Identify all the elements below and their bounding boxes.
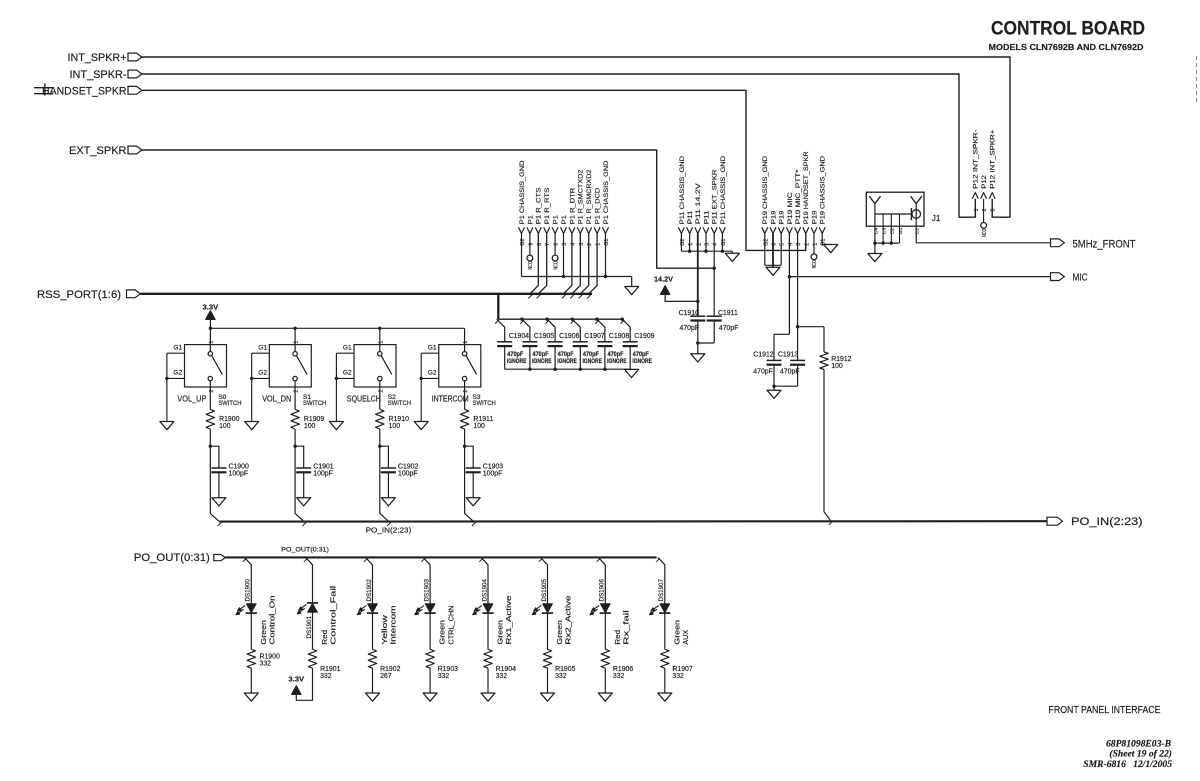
- svg-text:14.2V: 14.2V: [654, 275, 673, 284]
- wire R1905 to ground: [547, 668, 549, 693]
- port PO_IN(2:23): [1047, 516, 1143, 528]
- no-connect NCO on P12 pin 2: [981, 223, 988, 238]
- capacitor C1910 470pF: [679, 310, 706, 343]
- resistor R1905 332: [543, 649, 575, 680]
- resistor R1904 332: [484, 649, 516, 680]
- svg-text:IGNORE: IGNORE: [557, 359, 577, 365]
- ground C1910/C1911: [691, 354, 705, 362]
- connector P12 pin 3: [989, 130, 997, 212]
- svg-text:332: 332: [672, 673, 684, 680]
- svg-text:IGNORE: IGNORE: [507, 359, 527, 365]
- ground P1 chassis: [625, 287, 639, 295]
- svg-text:IGNORE: IGNORE: [607, 359, 627, 365]
- svg-text:IGNORE: IGNORE: [632, 359, 652, 365]
- wire DS1901 to 3.3V: [296, 668, 312, 700]
- svg-text:100: 100: [304, 423, 316, 430]
- docnumber 68P81098E03-B: [1106, 739, 1172, 750]
- net label PO_OUT(0:31): [281, 547, 329, 554]
- wire switch S3 left pins to ground: [420, 353, 439, 421]
- capacitor C1904 470pF IGNORE: [497, 319, 529, 369]
- resistor R1909 100: [291, 387, 324, 430]
- port INT_SPKR-: [70, 69, 142, 81]
- svg-text:P11: P11: [703, 210, 710, 224]
- svg-text:1: 1: [209, 341, 215, 344]
- resistor R1902 267: [368, 649, 400, 680]
- svg-text:G1: G1: [428, 344, 437, 351]
- svg-text:MODELS CLN7692B AND CLN7692D: MODELS CLN7692B AND CLN7692D: [989, 42, 1144, 52]
- svg-text:R1912: R1912: [831, 356, 851, 363]
- svg-text:100pF: 100pF: [398, 471, 418, 478]
- svg-text:J1: J1: [932, 214, 941, 223]
- svg-text:NCO: NCO: [812, 260, 818, 269]
- svg-text:P11 14.2V: P11 14.2V: [695, 183, 702, 225]
- wire P19 ground bracket: [765, 264, 781, 266]
- svg-text:DS1900: DS1900: [245, 579, 252, 602]
- wire HANDSET_SPKR to P19 pin 2: [142, 90, 806, 250]
- ground C1900: [212, 498, 226, 506]
- svg-text:332: 332: [496, 673, 508, 680]
- svg-text:SWITCH: SWITCH: [473, 400, 497, 407]
- ground DS1900 branch: [244, 693, 258, 701]
- svg-text:CONTROL BOARD: CONTROL BOARD: [991, 18, 1145, 40]
- connector P1 pin 7: [538, 187, 551, 294]
- wire R1911 to PO_IN bus: [463, 429, 476, 526]
- svg-text:332: 332: [320, 673, 332, 680]
- connector P11 pin 2: [695, 183, 703, 317]
- svg-text:P1: P1: [561, 215, 568, 224]
- power 3.3V LED DS1901: [288, 674, 304, 694]
- svg-text:P11 CHASSIS_GND: P11 CHASSIS_GND: [679, 156, 686, 224]
- svg-text:R1907: R1907: [672, 666, 692, 673]
- capacitor C1905 470pF IGNORE: [522, 319, 554, 369]
- svg-text:100pF: 100pF: [483, 471, 503, 478]
- svg-text:G1: G1: [343, 344, 352, 351]
- svg-text:C1907: C1907: [584, 333, 604, 340]
- svg-text:INT_SPKR-: INT_SPKR-: [70, 69, 127, 81]
- capacitor C1907 470pF IGNORE: [572, 319, 604, 369]
- scan artifact near HANDSET_SPKR: [34, 83, 53, 95]
- svg-text:P1 R_RTS: P1 R_RTS: [544, 187, 551, 224]
- svg-text:G1: G1: [898, 227, 904, 234]
- title CONTROL BOARD: [991, 18, 1145, 40]
- svg-text:PO_IN(2:23): PO_IN(2:23): [366, 525, 412, 534]
- svg-text:INT_SPKR+: INT_SPKR+: [68, 52, 127, 64]
- wire 5MHz_FRONT from J1: [916, 210, 1050, 243]
- svg-text:C1904: C1904: [509, 333, 529, 340]
- svg-text:C1903: C1903: [483, 463, 503, 470]
- ground DS1906 branch: [598, 693, 612, 701]
- svg-text:470pF: 470pF: [633, 351, 649, 358]
- svg-text:P11 EXT_SPKR: P11 EXT_SPKR: [712, 170, 719, 225]
- svg-text:RSS_PORT(1:6): RSS_PORT(1:6): [37, 289, 121, 301]
- ground P19 G2/6/5: [766, 267, 780, 275]
- wire R1909 to PO_IN bus: [293, 429, 306, 526]
- svg-text:NCO: NCO: [982, 228, 988, 237]
- LED DS1905 Green Rx2_Active: [532, 579, 572, 650]
- no-connect NCO on P19 pin 1: [811, 254, 818, 269]
- connector J1 box: [866, 192, 941, 226]
- wire capacitor row bottom rail: [505, 368, 632, 371]
- svg-text:Rx_fail: Rx_fail: [624, 610, 631, 645]
- wire P1 chassis ground rail: [522, 275, 632, 287]
- svg-text:2: 2: [804, 243, 810, 246]
- wire PO_OUT bus tap to DS1902: [364, 557, 373, 603]
- svg-text:PO_OUT(0:31): PO_OUT(0:31): [134, 552, 210, 564]
- connector P19 pin 5: [778, 210, 786, 265]
- svg-text:267: 267: [380, 673, 392, 680]
- svg-text:C1900: C1900: [229, 463, 249, 470]
- svg-text:R1900: R1900: [260, 654, 280, 661]
- svg-text:IGNORE: IGNORE: [532, 359, 552, 365]
- wire PO_OUT bus tap to DS1907: [656, 557, 665, 603]
- wire R1906 to ground: [604, 668, 606, 693]
- no-connect NCO on P1 pin 9: [527, 255, 534, 270]
- resistor R1903 332: [426, 649, 458, 680]
- svg-text:IGNORE: IGNORE: [583, 359, 603, 365]
- no-connect NCO on P1 pin 6: [552, 255, 559, 270]
- connector P19 pin 3: [795, 169, 803, 360]
- svg-text:5MHz_FRONT: 5MHz_FRONT: [1073, 238, 1136, 250]
- svg-text:470pF: 470pF: [719, 325, 739, 332]
- ground C1902: [381, 498, 395, 506]
- svg-text:P19: P19: [779, 210, 786, 224]
- svg-text:R1909: R1909: [304, 416, 324, 423]
- svg-text:P1: P1: [553, 215, 560, 224]
- svg-text:1: 1: [974, 209, 980, 212]
- svg-text:332: 332: [438, 673, 450, 680]
- svg-text:470pF: 470pF: [680, 325, 700, 332]
- svg-text:P1 R_DCD: P1 R_DCD: [595, 188, 602, 224]
- resistor R1912 100: [798, 327, 852, 370]
- svg-text:2: 2: [982, 209, 988, 212]
- svg-text:Intercom: Intercom: [391, 605, 398, 644]
- svg-text:100: 100: [219, 423, 231, 430]
- connector P19 pin G2: [762, 156, 770, 265]
- svg-text:MIC: MIC: [1073, 272, 1088, 283]
- wire MIC from P19 pin 4 to port: [788, 275, 1051, 278]
- svg-text:P1 CHASSIS_GND: P1 CHASSIS_GND: [519, 160, 526, 224]
- wire R1907 to ground: [664, 668, 666, 693]
- wire R1900 to PO_IN bus: [209, 429, 222, 526]
- svg-text:DS1901: DS1901: [306, 616, 313, 639]
- svg-text:Green: Green: [498, 620, 505, 645]
- connector J1 inner pins: [873, 214, 920, 243]
- caption FRONT PANEL INTERFACE: [1049, 705, 1161, 716]
- wire INT_SPKR+ to P12 pin 3: [142, 57, 1010, 217]
- svg-text:P19 MIC_PTT*: P19 MIC_PTT*: [795, 169, 802, 224]
- svg-text:100pF: 100pF: [313, 471, 333, 478]
- svg-text:SWITCH: SWITCH: [388, 400, 412, 407]
- power 14.2V: [654, 275, 700, 304]
- port PO_OUT(0:31): [134, 552, 225, 564]
- connector P12 pin 1: [972, 130, 980, 212]
- svg-text:R1905: R1905: [555, 666, 575, 673]
- wire PO_OUT bus tap to DS1906: [597, 557, 606, 603]
- svg-text:1: 1: [463, 341, 469, 344]
- LED DS1900 Green Control_On: [236, 579, 276, 650]
- svg-text:100pF: 100pF: [229, 471, 249, 478]
- ground C1912/C1913: [767, 390, 781, 398]
- svg-text:P19 CHASSIS_GND: P19 CHASSIS_GND: [820, 156, 827, 224]
- bus corner down to capacitor rail: [497, 294, 499, 319]
- svg-text:G1: G1: [173, 344, 182, 351]
- svg-text:FRONT PANEL INTERFACE: FRONT PANEL INTERFACE: [1049, 705, 1161, 716]
- svg-text:P1 R_SMCTXD2: P1 R_SMCTXD2: [578, 169, 585, 224]
- svg-text:C1911: C1911: [718, 310, 738, 317]
- wire capacitor row top rail: [495, 318, 624, 324]
- switch S0 VOL_UP: [173, 341, 241, 407]
- LED DS1902 Yellow Intercom: [357, 579, 397, 650]
- ground C1903: [466, 498, 480, 506]
- connector P1 pin 5: [561, 215, 569, 277]
- svg-text:G2: G2: [428, 369, 437, 376]
- wire R1902 to ground: [372, 668, 374, 693]
- svg-text:VOL_UP: VOL_UP: [177, 394, 206, 403]
- svg-text:Red: Red: [322, 630, 329, 645]
- svg-text:Green: Green: [261, 620, 268, 645]
- capacitor C1902 100pF: [380, 446, 419, 498]
- svg-text:470pF: 470pF: [608, 351, 624, 358]
- ground DS1902 branch: [366, 693, 380, 701]
- svg-text:C4: C4: [873, 228, 879, 235]
- svg-text:SMR-6816 12/1/2005: SMR-6816 12/1/2005: [1083, 759, 1172, 770]
- svg-text:CTRL_CHN: CTRL_CHN: [448, 605, 455, 644]
- wire J1 ground rail: [873, 241, 899, 253]
- capacitor C1909 470pF IGNORE: [622, 319, 654, 369]
- svg-text:Yellow: Yellow: [382, 614, 389, 645]
- connector P1 pin 6: [552, 215, 560, 255]
- svg-text:DS1903: DS1903: [424, 579, 431, 602]
- connector P19 pin 1: [811, 210, 819, 254]
- wire R1900 to ground: [250, 668, 252, 693]
- svg-text:R1903: R1903: [438, 666, 458, 673]
- svg-text:470pF: 470pF: [753, 369, 773, 376]
- wire INT_SPKR- to P12 pin 1: [142, 74, 976, 217]
- svg-text:R1901: R1901: [320, 666, 340, 673]
- connector P11 pin 1: [687, 210, 695, 251]
- connector P1 pin 9: [527, 215, 535, 255]
- svg-text:C1905: C1905: [534, 333, 554, 340]
- wire C1912 C1913 ground join: [772, 385, 797, 391]
- switch S3 INTERCOM: [428, 328, 496, 407]
- svg-text:P12 INT_SPKR-: P12 INT_SPKR-: [973, 130, 980, 189]
- connector P1 pin 3: [572, 169, 585, 293]
- LED DS1906 Red Rx_fail: [590, 579, 630, 650]
- connector P1 pin G1: [603, 160, 611, 276]
- svg-text:Rx2_Active: Rx2_Active: [566, 595, 573, 644]
- switch S2 SQUELCH: [343, 328, 411, 407]
- wire EXT_SPKR to P11 pin 4: [142, 150, 716, 270]
- svg-text:470pF: 470pF: [507, 351, 523, 358]
- bus RSS_PORT horizontal: [140, 293, 592, 295]
- LED DS1907 Green AUX: [650, 579, 690, 650]
- wire C1910 C1911 ground join: [696, 341, 714, 354]
- LED DS1904 Green Rx1_Active: [473, 579, 513, 650]
- LED DS1901 Red Control_Fail: [297, 585, 337, 649]
- connector P1 pin 4: [564, 188, 577, 294]
- ground C1901: [297, 498, 311, 506]
- capacitor C1901 100pF: [295, 446, 334, 498]
- svg-text:100: 100: [831, 363, 843, 370]
- resistor R1906 332: [601, 649, 633, 680]
- wire R1910 to PO_IN bus: [378, 429, 391, 526]
- ground P11 chassis: [725, 253, 739, 261]
- svg-text:Rx1_Active: Rx1_Active: [506, 595, 513, 644]
- svg-text:P19 HANDSET_SPKR: P19 HANDSET_SPKR: [803, 151, 810, 224]
- connector P11 pin G1: [719, 156, 727, 251]
- svg-text:P1 R_DTR: P1 R_DTR: [569, 188, 576, 225]
- wire PO_OUT bus tap to DS1901: [304, 557, 313, 603]
- svg-text:P19 MIC: P19 MIC: [787, 192, 794, 224]
- svg-text:R1906: R1906: [613, 666, 633, 673]
- svg-text:470pF: 470pF: [558, 351, 574, 358]
- switch S1 VOL_DN: [258, 328, 326, 407]
- wire R1912 to PO_IN bus: [824, 370, 833, 525]
- ground DS1903 branch: [423, 693, 437, 701]
- connector P1 pin 8: [530, 187, 543, 294]
- svg-text:PO_IN(2:23): PO_IN(2:23): [1071, 516, 1143, 528]
- antenna symbol J1 left: [869, 196, 880, 243]
- port MIC: [1051, 272, 1088, 283]
- port HANDSET_SPKR: [42, 85, 142, 97]
- svg-text:R1900: R1900: [219, 416, 239, 423]
- svg-text:332: 332: [613, 673, 625, 680]
- svg-text:SWITCH: SWITCH: [218, 400, 242, 407]
- svg-text:P12 INT_SPKR+: P12 INT_SPKR+: [990, 130, 997, 189]
- svg-text:R1902: R1902: [380, 666, 400, 673]
- svg-text:C1912: C1912: [753, 351, 773, 358]
- bus PO_IN horizontal: [219, 520, 1047, 522]
- svg-text:100: 100: [473, 423, 485, 430]
- svg-text:470pF: 470pF: [583, 351, 599, 358]
- svg-text:Green: Green: [440, 620, 447, 645]
- antenna symbol J1 right: [911, 196, 922, 210]
- ground capacitor row: [625, 369, 639, 377]
- bus PO_OUT horizontal: [225, 556, 656, 558]
- capacitor C1903 100pF: [465, 446, 504, 498]
- svg-text:G2: G2: [343, 369, 352, 376]
- svg-text:DS1906: DS1906: [599, 579, 606, 602]
- ground switch S3: [414, 422, 428, 430]
- svg-text:C1909: C1909: [634, 333, 654, 340]
- jack symbol J1: [875, 208, 921, 220]
- wire P11 chassis ground rail: [681, 250, 732, 254]
- svg-text:P1 CHASSIS_GND: P1 CHASSIS_GND: [603, 160, 610, 224]
- svg-text:R1910: R1910: [389, 416, 409, 423]
- LED DS1903 Green CTRL_CHN: [415, 579, 455, 650]
- svg-text:470pF: 470pF: [780, 369, 800, 376]
- resistor R1910 100: [376, 387, 409, 430]
- ground switch S2: [329, 422, 343, 430]
- connector P12 pin 2: [981, 175, 989, 222]
- connector P1 pin 2: [580, 169, 593, 293]
- connector P19 pin 6: [770, 210, 778, 267]
- svg-text:P19 CHASSIS_GND: P19 CHASSIS_GND: [762, 156, 769, 224]
- scan artifact right margin: [1196, 56, 1198, 103]
- ground P19 G1: [824, 245, 838, 253]
- svg-text:P1 R_SMCRXD2: P1 R_SMCRXD2: [586, 169, 593, 224]
- svg-text:Control_On: Control_On: [270, 595, 277, 644]
- svg-text:(Sheet 19 of 22): (Sheet 19 of 22): [1109, 748, 1172, 759]
- capacitor C1912 470pF: [753, 334, 789, 386]
- resistor R1911 100: [460, 387, 493, 430]
- connector P11 pin 3: [703, 210, 711, 251]
- capacitor C1906 470pF IGNORE: [547, 319, 579, 369]
- svg-text:NCO: NCO: [553, 261, 559, 270]
- wire switch S2 left pins to ground: [335, 353, 354, 421]
- connector P19 pin 4: [786, 192, 794, 334]
- svg-text:G1: G1: [258, 344, 267, 351]
- connector P19 pin G1: [819, 156, 831, 246]
- svg-text:NCO: NCO: [528, 261, 534, 270]
- ground DS1904 branch: [481, 693, 495, 701]
- svg-text:DS1904: DS1904: [481, 579, 488, 602]
- svg-text:P1 R_CTS: P1 R_CTS: [536, 187, 543, 224]
- svg-text:P11: P11: [687, 210, 694, 224]
- ground switch S1: [245, 422, 259, 430]
- svg-text:332: 332: [260, 661, 272, 668]
- svg-text:DS1902: DS1902: [366, 579, 373, 602]
- port INT_SPKR+: [68, 52, 142, 64]
- bus taps of P1 signals: [528, 295, 590, 299]
- connector P19 pin 2: [803, 151, 811, 245]
- svg-text:470pF: 470pF: [533, 351, 549, 358]
- connector P11 pin G2: [678, 156, 686, 251]
- svg-text:Green: Green: [557, 620, 564, 645]
- svg-text:AUX: AUX: [683, 630, 690, 645]
- connector P1 pin 1: [589, 188, 602, 294]
- svg-text:G2: G2: [173, 369, 182, 376]
- power 3.3V switch rail: [203, 302, 465, 344]
- subtitle MODELS CLN7692B AND CLN7692D: [989, 42, 1144, 52]
- wire PO_OUT bus tap to DS1905: [539, 557, 548, 603]
- svg-text:P11 CHASSIS_GND: P11 CHASSIS_GND: [720, 156, 727, 224]
- docnumber Sheet 19 of 22: [1109, 748, 1172, 759]
- resistor R1907 332: [661, 649, 693, 680]
- connector P1 pin G2: [519, 160, 527, 276]
- docnumber SMR-6816 12/1/2005: [1083, 759, 1172, 770]
- capacitor C1913 470pF: [778, 325, 805, 386]
- svg-text:R1911: R1911: [473, 416, 493, 423]
- svg-text:Red: Red: [615, 630, 622, 645]
- svg-text:3.3V: 3.3V: [288, 674, 304, 683]
- svg-text:C2: C2: [890, 228, 896, 235]
- ground switch S0: [160, 422, 174, 430]
- resistor R1901 332: [308, 649, 340, 680]
- svg-text:SQUELCH: SQUELCH: [347, 394, 381, 403]
- svg-text:1: 1: [378, 341, 384, 344]
- svg-text:P19: P19: [770, 210, 777, 224]
- svg-text:3: 3: [991, 209, 997, 212]
- connector P11 pin 4: [711, 170, 719, 317]
- svg-text:Green: Green: [674, 620, 681, 645]
- svg-text:VOL_DN: VOL_DN: [262, 394, 291, 403]
- svg-text:100: 100: [389, 423, 401, 430]
- wire PO_OUT bus tap to DS1903: [422, 557, 431, 603]
- wire R1903 to ground: [429, 668, 431, 693]
- capacitor C1911 470pF: [707, 310, 739, 343]
- net label PO_IN(2:23): [366, 525, 412, 534]
- port EXT_SPKR: [69, 145, 142, 157]
- svg-text:332: 332: [555, 673, 567, 680]
- svg-text:SWITCH: SWITCH: [303, 400, 327, 407]
- ground DS1907 branch: [658, 693, 672, 701]
- svg-text:C1910: C1910: [679, 310, 699, 317]
- svg-text:P19: P19: [811, 210, 818, 224]
- svg-text:P12: P12: [981, 175, 988, 189]
- capacitor C1900 100pF: [210, 446, 249, 498]
- port RSS_PORT(1:6): [37, 289, 140, 301]
